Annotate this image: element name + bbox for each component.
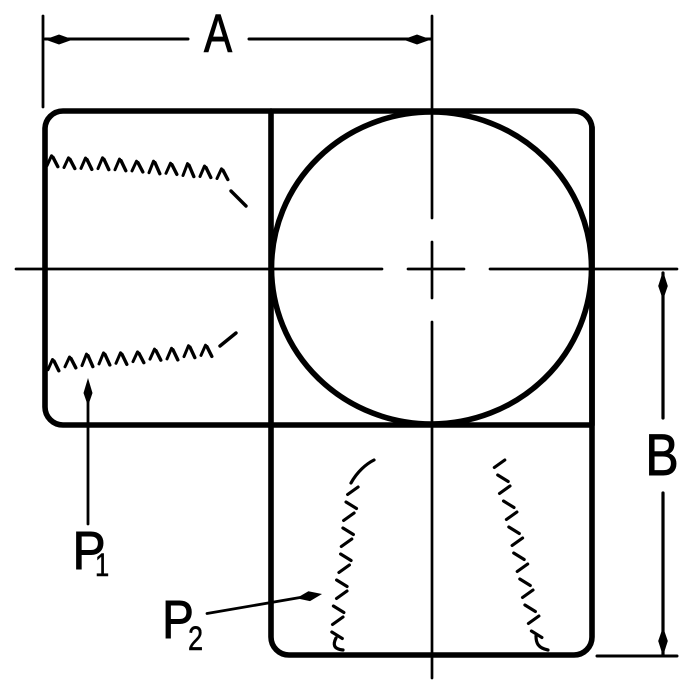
left vertical thread bottom hook	[334, 638, 343, 650]
horizontal port body (rounded rect)	[45, 111, 592, 425]
vertical centerline center dash	[431, 242, 434, 298]
leader arrow P2 shaft	[207, 597, 303, 614]
horizontal centerline left dash	[16, 268, 382, 271]
upper thread marks P1 port	[47, 156, 246, 206]
vertical port body (rounded rect)	[271, 111, 592, 655]
dimension A extension line	[42, 16, 45, 107]
svg-text:1: 1	[95, 548, 109, 583]
horizontal centerline center dash	[408, 268, 464, 271]
svg-text:A: A	[204, 4, 233, 64]
svg-text:B: B	[645, 424, 678, 488]
vertical centerline lower dash	[431, 322, 434, 678]
horizontal centerline right dash	[490, 268, 677, 271]
dimension B line upper segment	[661, 273, 664, 418]
dimension A line right segment	[249, 38, 431, 41]
lower thread end tick	[220, 333, 236, 346]
dimension A right arrowhead	[403, 35, 431, 45]
dimension A line left segment	[45, 38, 188, 41]
svg-text:2: 2	[188, 619, 203, 658]
lower thread marks P1 port	[48, 333, 236, 371]
dimension B bottom extension line	[597, 655, 677, 658]
right vertical thread bottom hook	[536, 636, 548, 650]
leader arrow P1 shaft	[87, 386, 90, 524]
leader arrow P1 head	[84, 378, 93, 406]
leader arrow P2 head	[296, 591, 322, 601]
upper thread end tick	[231, 191, 246, 206]
vertical centerline upper dash	[431, 16, 434, 218]
dimension A left arrowhead	[45, 35, 73, 45]
dimension B bottom arrowhead	[658, 627, 668, 656]
bore circle	[272, 112, 592, 424]
right vertical thread P2 port	[494, 460, 548, 650]
dimension B top arrowhead	[658, 271, 668, 300]
left vertical thread P2 port top hook	[332, 460, 374, 650]
dimension B line lower segment	[661, 493, 664, 655]
